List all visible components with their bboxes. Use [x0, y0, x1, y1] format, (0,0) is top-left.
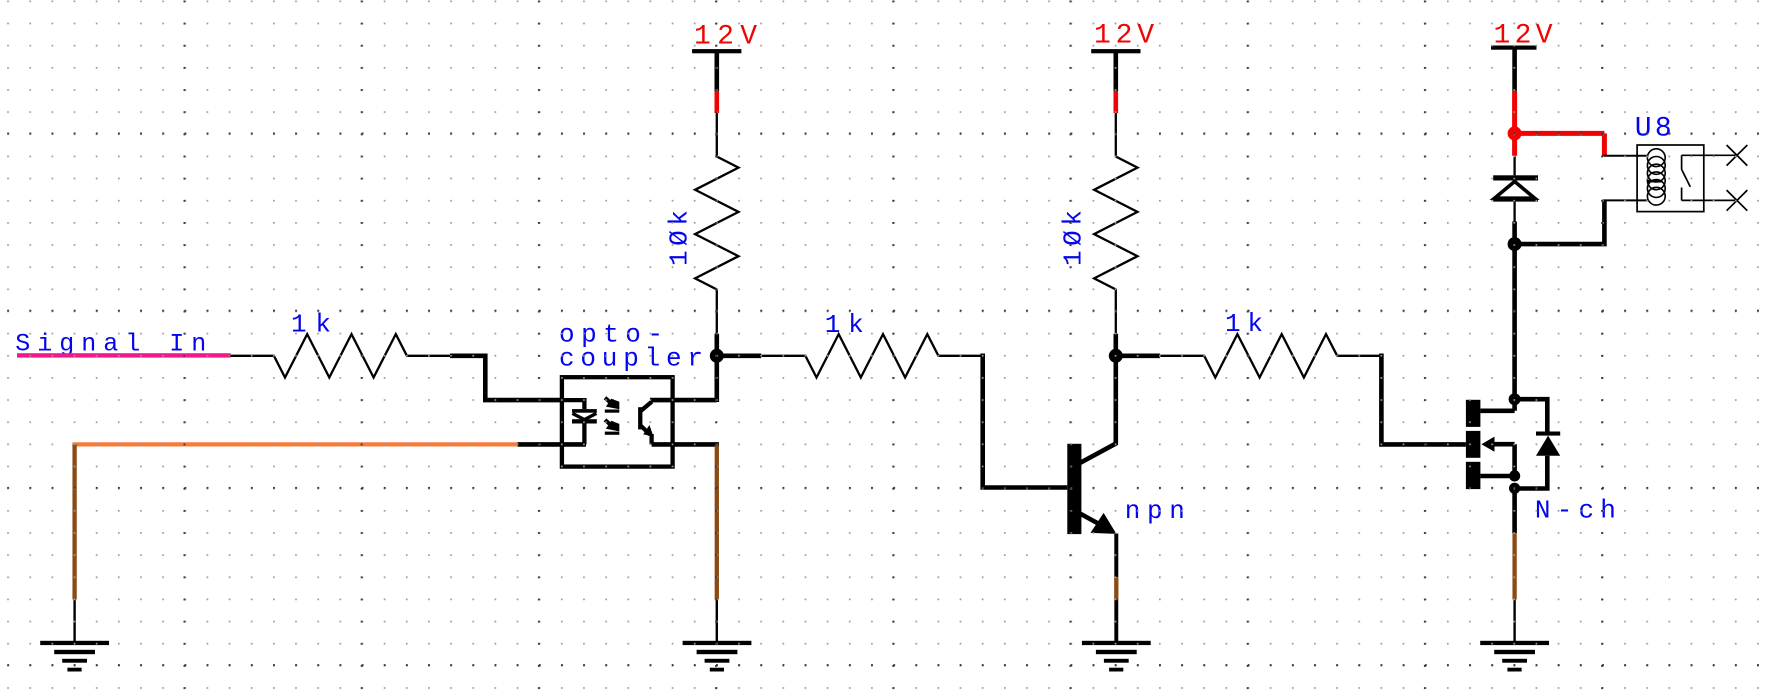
wire 12V to R2pull	[716, 91, 718, 113]
node C junction	[1508, 237, 1522, 251]
wire R3 to Q1 base	[983, 354, 1068, 488]
relay U8 box	[1637, 145, 1704, 212]
wire GND net brown segment (mosfet)	[1512, 533, 1516, 599]
wire GND1 net brown vertical (mid)	[715, 446, 719, 600]
diode D1 cathode bar	[1493, 175, 1538, 180]
optocoupler U1 light arrow 2	[605, 420, 620, 435]
net Signal In pink underline wire	[17, 353, 231, 357]
pin relay contact top	[1682, 154, 1737, 156]
net 12V red segment 2	[1114, 91, 1119, 113]
mosfet Q2 drain wire	[1480, 399, 1514, 411]
mosfet Q2 source wire	[1480, 474, 1514, 479]
ground left stem	[73, 600, 75, 642]
diode D2 cathode bar	[1536, 432, 1560, 436]
ground mosfet	[1480, 641, 1549, 672]
relay U8 coil	[1647, 149, 1665, 205]
node B junction	[1109, 349, 1123, 363]
resistor R2pull 10k vertical	[695, 112, 738, 334]
optocoupler U1 LED	[572, 409, 597, 423]
mosfet Q2 source junction dots	[1509, 470, 1520, 481]
optocoupler U1 light arrow 1	[605, 398, 620, 413]
wire power bar 2	[1114, 51, 1119, 91]
wire opto emitter output	[652, 442, 719, 447]
power 12V bar 2	[1091, 49, 1140, 53]
wire node B to R4	[1113, 353, 1160, 358]
transistor Q1 npn base bar	[1067, 444, 1081, 534]
wire node B up to R5pull	[1114, 334, 1119, 358]
ground mid stem	[716, 600, 718, 642]
diode D1 flyback anode lead	[1512, 222, 1517, 245]
no-connect X top	[1727, 145, 1748, 166]
resistor R5pull 10k vertical	[1094, 112, 1137, 334]
wire GND net brown segment (npn)	[1114, 577, 1118, 599]
wire opto collector output to node A	[650, 356, 717, 402]
node A junction	[710, 349, 724, 363]
node D red junction	[1508, 126, 1522, 140]
diode D1 cathode lead	[1513, 156, 1515, 176]
mosfet Q2 body wire to source	[1494, 444, 1515, 476]
net 12V red segment	[714, 91, 719, 113]
resistor R3 1k	[761, 334, 983, 377]
resistor R1	[230, 334, 452, 377]
optocoupler U1 phototransistor emitter	[640, 425, 654, 444]
wire power bar to red segment	[714, 51, 719, 91]
net orange wire from opto cathode	[518, 442, 586, 447]
wire from R1 to optocoupler	[450, 356, 563, 400]
wire Q1 emitter down	[1114, 534, 1118, 578]
relay U8 contact	[1682, 155, 1691, 200]
wire node C to relay coil bottom	[1515, 200, 1605, 246]
wire Q2 source down	[1512, 488, 1517, 533]
wire 12V to R5pull	[1115, 91, 1117, 113]
ground mid	[683, 641, 752, 672]
wire below brown to ground npn	[1114, 600, 1118, 642]
ground left	[40, 641, 109, 672]
power 12V bar 3	[1491, 46, 1537, 50]
wire 12V bar 3 down	[1512, 47, 1517, 91]
optocoupler U1 body box	[562, 377, 673, 466]
diode D2 triangle	[1536, 436, 1560, 456]
ground mosfet stem	[1513, 600, 1515, 642]
optocoupler U1 LED cathode lead	[582, 424, 586, 445]
diode D2 body diode loop	[1515, 399, 1548, 488]
mosfet Q2 channel bars	[1466, 400, 1481, 489]
optocoupler U1 phototransistor collector	[640, 402, 652, 412]
net 12V red wire to relay coil top	[1515, 133, 1605, 155]
mosfet Q2 drain junction dot	[1509, 393, 1521, 405]
pin relay contact bottom	[1682, 199, 1737, 201]
diode D1 base line	[1493, 198, 1538, 201]
diode D1 triangle outline	[1495, 182, 1535, 199]
wire R4 to Q2 gate	[1381, 354, 1466, 445]
relay U8 coil center dash	[1648, 180, 1662, 183]
optocoupler U1 label	[559, 319, 703, 373]
wire node A up to R2pull	[714, 334, 719, 358]
wire Q2 drain up to node C	[1512, 244, 1517, 399]
no-connect X bottom	[1727, 190, 1748, 211]
net 12V red stub below node D	[1512, 133, 1517, 155]
pin relay coil top lead	[1603, 155, 1649, 157]
mosfet Q2 body arrow	[1481, 437, 1494, 452]
node Signal In label	[15, 330, 206, 359]
power 12V bar 1	[692, 49, 741, 53]
transistor Q1 collector	[1079, 356, 1117, 464]
resistor R4 1k	[1160, 334, 1382, 377]
wire node A to R2	[714, 353, 761, 358]
transistor Q1 emitter	[1079, 513, 1116, 534]
optocoupler U1 phototransistor base bar	[638, 407, 642, 429]
optocoupler U1 LED anode lead	[561, 398, 586, 409]
wire brown vertical left	[72, 444, 76, 599]
net 12V red vertical above node D	[1512, 91, 1517, 133]
ground npn	[1082, 641, 1151, 672]
pin relay coil bottom lead	[1603, 199, 1649, 201]
